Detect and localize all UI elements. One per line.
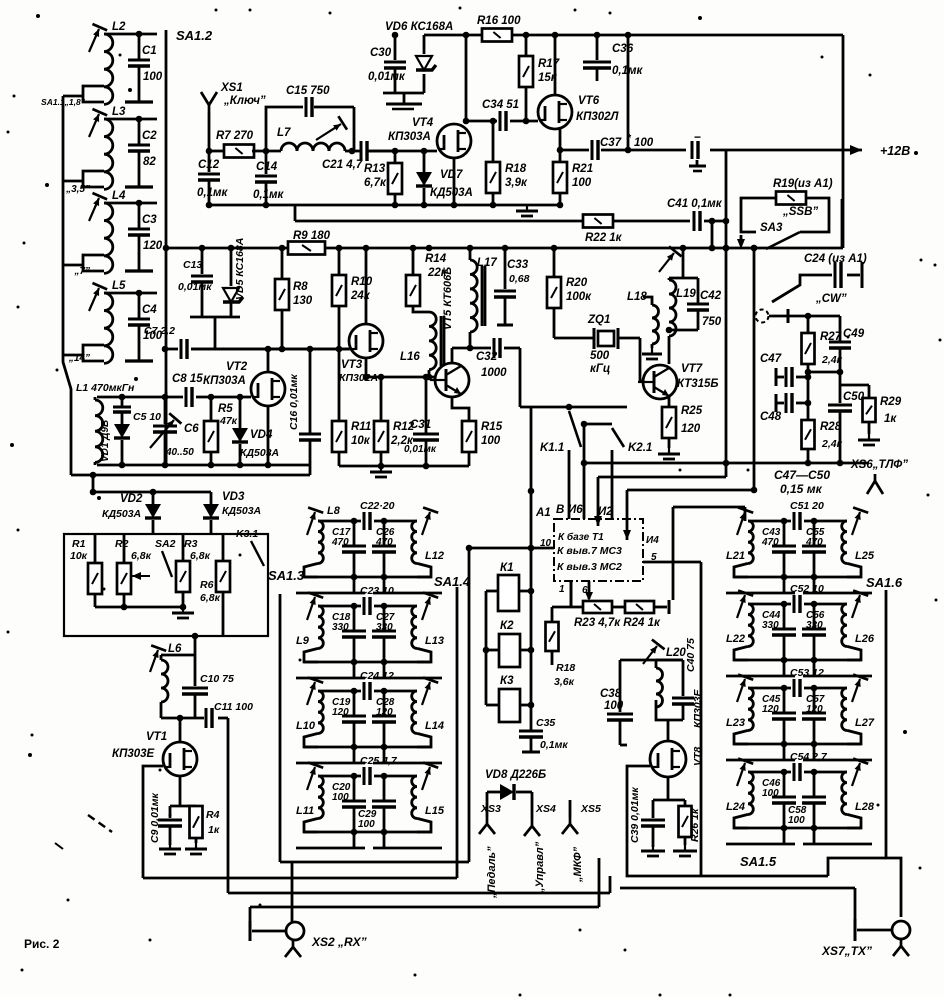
contact K1.1 — [569, 411, 581, 447]
svg-text:R7 270: R7 270 — [216, 130, 254, 142]
svg-text:„SSB”: „SSB” — [782, 206, 818, 218]
svg-text:КД503А: КД503А — [102, 508, 141, 520]
inductor L6 — [160, 655, 163, 660]
wire pins bottom — [570, 581, 573, 607]
svg-text:XS5: XS5 — [580, 803, 601, 815]
svg-text:C52 10: C52 10 — [790, 583, 824, 595]
wire — [668, 336, 671, 364]
capacitor C18 — [353, 606, 356, 631]
wire +12V rail — [628, 149, 686, 152]
wire — [734, 827, 861, 830]
capacitor C12 — [208, 151, 211, 172]
svg-text:C4: C4 — [142, 304, 157, 316]
transistor VT8 — [650, 741, 686, 777]
svg-text:100: 100 — [358, 819, 375, 830]
capacitor C29 — [383, 776, 386, 801]
capacitor C39 — [652, 800, 655, 818]
wire bus right — [620, 887, 855, 890]
wire right bank left bus — [700, 562, 703, 875]
resistor R27 — [807, 316, 810, 333]
svg-text:R17: R17 — [538, 58, 560, 70]
diode VD8 — [487, 791, 500, 794]
resistor R10 — [338, 248, 341, 275]
speck scratch — [88, 815, 112, 832]
svg-text:L24: L24 — [726, 801, 745, 813]
inductor L10 — [318, 691, 323, 733]
wire — [339, 465, 469, 468]
capacitor C55 — [813, 521, 816, 546]
resistor R9 — [288, 242, 325, 255]
svg-text:L25: L25 — [855, 550, 875, 562]
wire R22 line — [295, 220, 583, 223]
svg-text:XS4: XS4 — [535, 803, 556, 815]
svg-text:L2: L2 — [112, 21, 126, 33]
capacitor C17 — [353, 521, 356, 546]
wire — [643, 297, 652, 305]
svg-text:100: 100 — [332, 792, 349, 803]
wire gate line — [97, 396, 183, 399]
capacitor C20 — [353, 776, 356, 801]
wire main bus — [166, 247, 288, 250]
wire — [280, 861, 469, 864]
svg-text:В: В — [556, 504, 564, 516]
svg-text:L1 470мкГн: L1 470мкГн — [76, 382, 135, 394]
resistor R15 — [452, 397, 469, 421]
transistor VT2 — [251, 372, 285, 406]
svg-text:VT3: VT3 — [341, 359, 363, 371]
svg-text:C15 750: C15 750 — [286, 85, 330, 97]
relay K1 — [486, 590, 498, 593]
wire tap — [83, 345, 104, 361]
ground — [172, 607, 194, 618]
svg-text:L3: L3 — [112, 106, 126, 118]
svg-text:VD6 КС168А: VD6 КС168А — [385, 21, 453, 33]
wire — [104, 33, 157, 36]
svg-text:6,8к: 6,8к — [190, 550, 211, 562]
ground — [658, 448, 680, 459]
svg-text:−: − — [694, 130, 701, 144]
svg-text:L9: L9 — [296, 635, 310, 647]
inductor L2 — [104, 34, 113, 104]
svg-text:SA1.3: SA1.3 — [268, 568, 305, 583]
diode VD4 — [239, 397, 242, 428]
svg-text:C6: C6 — [184, 423, 199, 435]
ground — [641, 845, 665, 856]
svg-text:И6: И6 — [568, 504, 583, 516]
wire — [613, 220, 690, 223]
svg-text:330: 330 — [806, 620, 823, 631]
resistor R11 — [332, 421, 346, 452]
svg-text:К1: К1 — [500, 562, 513, 574]
svg-text:„CW”: „CW” — [815, 293, 847, 305]
svg-text:„3,5”: „3,5” — [65, 184, 90, 195]
svg-text:C11 100: C11 100 — [214, 701, 253, 713]
speck — [36, 14, 40, 18]
svg-text:3,6к: 3,6к — [554, 676, 575, 688]
svg-text:XS7„ТХ”: XS7„ТХ” — [821, 944, 872, 958]
svg-text:R8: R8 — [293, 281, 308, 293]
wire C32 output — [519, 348, 522, 407]
capacitor C1 — [138, 34, 141, 60]
svg-text:VT6: VT6 — [578, 95, 600, 107]
resistor R24 — [612, 606, 625, 609]
capacitor C3 — [138, 203, 141, 229]
svg-text:L26: L26 — [855, 633, 875, 645]
capacitor C53 — [748, 687, 791, 690]
capacitor C16 — [309, 349, 312, 434]
svg-text:10к: 10к — [70, 550, 88, 562]
svg-text:КТ315Б: КТ315Б — [677, 378, 719, 390]
wire — [179, 776, 182, 806]
capacitor C40 — [682, 660, 685, 696]
wire — [788, 315, 840, 318]
inductor L28 — [842, 772, 847, 814]
svg-text:„Педаль”: „Педаль” — [486, 846, 498, 899]
svg-text:Рис. 2: Рис. 2 — [24, 937, 60, 951]
wire — [304, 576, 431, 579]
svg-text:R29: R29 — [880, 396, 902, 408]
svg-text:C9 0,01мк: C9 0,01мк — [149, 792, 161, 843]
ground — [159, 843, 181, 854]
wire — [304, 661, 431, 664]
svg-text:R2: R2 — [115, 538, 129, 550]
svg-text:40..50: 40..50 — [165, 447, 194, 458]
svg-text:„МКФ”: „МКФ” — [572, 846, 584, 883]
svg-text:C35: C35 — [536, 717, 555, 729]
svg-text:+12В: +12В — [880, 144, 910, 158]
capacitor C58 — [813, 772, 816, 797]
svg-text:L10: L10 — [296, 720, 316, 732]
capacitor C22 — [318, 520, 361, 523]
svg-text:КД503А: КД503А — [222, 505, 261, 517]
wire frame — [71, 474, 281, 477]
wire — [734, 743, 861, 746]
capacitor C36 — [596, 35, 599, 60]
svg-text:R6: R6 — [200, 579, 214, 591]
resistor R19-3.6 — [551, 607, 554, 622]
svg-text:C32: C32 — [476, 351, 498, 363]
wire — [734, 659, 861, 662]
svg-text:10к: 10к — [351, 435, 371, 447]
svg-text:1к: 1к — [884, 413, 897, 425]
svg-text:100: 100 — [762, 788, 779, 799]
inductor L20 — [655, 660, 658, 668]
connector XS1 — [201, 92, 217, 112]
inductor L21 — [748, 521, 753, 563]
wire — [667, 777, 670, 800]
connector XS2 — [249, 921, 252, 941]
wire — [725, 150, 728, 463]
svg-text:„7”: „7” — [73, 266, 90, 277]
wire — [711, 221, 714, 248]
svg-text:100: 100 — [604, 700, 624, 712]
svg-text:КП303Е: КП303Е — [112, 748, 155, 760]
inductor L17 — [469, 248, 472, 260]
svg-text:0,15 мк: 0,15 мк — [780, 482, 823, 496]
inductor L11 — [318, 776, 323, 818]
svg-text:6,8к: 6,8к — [200, 592, 221, 604]
wire bus bottom3 — [250, 906, 599, 909]
svg-text:0,1мк: 0,1мк — [253, 189, 284, 201]
svg-text:К2: К2 — [500, 620, 514, 632]
wire relay bus left — [485, 591, 488, 705]
svg-text:L5: L5 — [112, 280, 126, 292]
svg-text:L23: L23 — [726, 717, 745, 729]
wire — [734, 576, 861, 579]
svg-text:C22·20: C22·20 — [360, 500, 395, 512]
capacitor C13 — [201, 248, 204, 274]
svg-text:L15: L15 — [425, 805, 445, 817]
wire — [828, 858, 886, 876]
resistor R20 — [553, 248, 556, 277]
svg-text:А1: А1 — [535, 507, 551, 519]
svg-text:82: 82 — [143, 156, 156, 168]
svg-text:100: 100 — [572, 177, 592, 189]
transistor VT5 — [430, 363, 469, 397]
inductor L19 — [668, 278, 671, 280]
capacitor C57 — [813, 688, 816, 713]
capacitor C2 — [138, 119, 141, 145]
capacitor C41 — [694, 211, 700, 231]
inductor L24 — [748, 772, 753, 814]
svg-text:XS2 „RX”: XS2 „RX” — [311, 935, 367, 949]
svg-text:C7 2,2: C7 2,2 — [144, 325, 175, 337]
svg-text:330: 330 — [332, 622, 349, 633]
svg-text:330: 330 — [376, 622, 393, 633]
svg-text:C48: C48 — [760, 411, 782, 423]
wire tap — [83, 171, 104, 187]
wire — [682, 248, 685, 278]
wire — [570, 581, 573, 607]
connector XS3 — [486, 792, 489, 817]
resistor R2 — [123, 534, 126, 563]
svg-text:R18: R18 — [505, 163, 527, 175]
svg-text:120: 120 — [806, 704, 823, 715]
svg-text:С40 75: С40 75 — [685, 638, 697, 672]
resistor R4 — [190, 806, 203, 838]
resistor R14 — [412, 248, 415, 275]
svg-text:C30: C30 — [370, 47, 392, 59]
svg-text:C47—C50: C47—C50 — [774, 468, 830, 482]
resistor R21 — [559, 150, 562, 162]
capacitor C5-C6 — [164, 397, 167, 424]
inductor L23 — [748, 688, 753, 730]
wire top rail — [424, 34, 843, 37]
resistor R3 — [182, 534, 185, 561]
inductor L18 — [652, 305, 659, 344]
wire — [92, 475, 95, 492]
wire bus A — [584, 462, 869, 465]
svg-text:120: 120 — [143, 240, 163, 252]
wire VT3 gate — [191, 348, 349, 351]
wire tap — [83, 86, 104, 102]
wire right frame top — [673, 506, 745, 509]
svg-text:1000: 1000 — [481, 367, 507, 379]
inductor L9 — [318, 606, 323, 648]
block A1 — [554, 519, 643, 581]
svg-text:C14: C14 — [256, 161, 278, 173]
svg-text:VD5 КС168А: VD5 КС168А — [234, 238, 246, 300]
wire VT6 source — [559, 129, 562, 150]
wire VT1 box — [143, 766, 163, 878]
svg-text:R25: R25 — [681, 405, 703, 417]
inductor L15 — [412, 776, 417, 818]
inductor L16 — [429, 312, 436, 370]
svg-text:C42: C42 — [700, 290, 722, 302]
wire SA1.1 bus — [63, 96, 71, 475]
transistor VT4 — [437, 124, 471, 158]
resistor R8 — [281, 248, 284, 279]
capacitor C45 — [783, 688, 786, 713]
capacitor C38 — [619, 688, 622, 712]
diode VD1 — [121, 397, 124, 407]
svg-text:47к: 47к — [219, 415, 238, 427]
svg-text:3,9к: 3,9к — [505, 177, 528, 189]
diode VD2 — [152, 492, 155, 504]
wire SA1.2 down — [165, 392, 168, 465]
capacitor C34 — [466, 120, 497, 123]
ground — [403, 93, 406, 104]
capacitor C43 — [783, 521, 786, 546]
svg-text:SA1.6: SA1.6 — [866, 575, 903, 590]
resistor R28 — [807, 372, 810, 420]
switch SA1.2 — [165, 30, 168, 465]
capacitor C35 — [519, 731, 543, 737]
svg-text:C36: C36 — [612, 43, 634, 55]
capacitor C30 — [394, 35, 397, 60]
wire right frame — [842, 35, 845, 248]
svg-text:R18: R18 — [556, 662, 575, 674]
capacitor C15 — [266, 107, 303, 151]
wire C34 tap — [492, 121, 495, 162]
resistor R12 — [380, 377, 383, 421]
capacitor C25 — [318, 775, 361, 778]
connector XS4 — [531, 792, 534, 819]
svg-text:0,01мк: 0,01мк — [368, 71, 406, 83]
svg-text:C33: C33 — [507, 259, 529, 271]
svg-text:R11: R11 — [351, 421, 371, 433]
svg-text:„Ключ”: „Ключ” — [223, 95, 266, 107]
wire tap — [83, 255, 104, 271]
svg-text:XS3: XS3 — [480, 803, 501, 815]
capacitor C44 — [783, 604, 786, 629]
capacitor C37 — [560, 149, 589, 152]
wire — [208, 112, 211, 151]
wire bus C — [627, 489, 754, 492]
inductor L5 — [104, 293, 113, 363]
svg-text:C1: C1 — [142, 45, 157, 57]
capacitor C-feed — [692, 141, 698, 159]
svg-text:0,01мк: 0,01мк — [404, 444, 437, 455]
svg-text:C5 10: C5 10 — [133, 411, 161, 423]
wire — [252, 150, 281, 153]
wire — [95, 606, 183, 609]
svg-text:КД503А: КД503А — [430, 187, 473, 199]
svg-text:R28: R28 — [820, 421, 842, 433]
wire bottom2 — [493, 204, 560, 207]
inductor L14 — [412, 691, 417, 733]
wire — [841, 199, 844, 248]
svg-text:С21 4,7: С21 4,7 — [322, 159, 363, 171]
svg-text:VT5 КТ606Б: VT5 КТ606Б — [442, 267, 454, 330]
wire — [620, 659, 683, 662]
svg-text:C39 0,01мк: C39 0,01мк — [629, 787, 641, 843]
diode VD7 — [423, 151, 426, 172]
resistor R17 — [525, 35, 528, 56]
ground — [858, 434, 880, 445]
wire pin5 — [643, 561, 701, 564]
svg-text:C41 0,1мк: C41 0,1мк — [667, 198, 723, 210]
capacitor C8 — [186, 387, 192, 407]
svg-text:R21: R21 — [572, 163, 593, 175]
svg-text:6,7к: 6,7к — [364, 177, 387, 189]
capacitor C19 — [353, 691, 356, 716]
wire SA1.3 bus — [279, 594, 282, 862]
capacitor C9 — [169, 806, 172, 818]
svg-text:R15: R15 — [481, 421, 503, 433]
wire K line — [520, 406, 627, 409]
inductor L3 — [104, 119, 113, 189]
svg-text:ZQ1: ZQ1 — [587, 314, 610, 326]
svg-text:К выв.7 МС3: К выв.7 МС3 — [557, 545, 622, 557]
capacitor C46 — [783, 772, 786, 797]
inductor L26 — [842, 604, 847, 646]
wire — [383, 92, 424, 95]
svg-text:130: 130 — [293, 295, 313, 307]
zener VD5 — [230, 248, 233, 286]
svg-text:C10 75: C10 75 — [200, 673, 234, 685]
svg-text:SA3: SA3 — [760, 222, 783, 234]
svg-text:VD7: VD7 — [440, 169, 463, 181]
svg-text:R19(из А1): R19(из А1) — [773, 178, 833, 190]
wire — [249, 907, 252, 921]
transistor VT3 — [349, 324, 383, 358]
inductor L4 — [104, 203, 113, 273]
svg-text:L6: L6 — [168, 643, 182, 655]
svg-text:R1: R1 — [72, 538, 86, 550]
diode VD3 — [210, 492, 213, 504]
svg-text:100к: 100к — [566, 291, 592, 303]
transistor VT7 — [638, 365, 677, 399]
resistor R18 — [486, 162, 500, 193]
svg-text:КП302Л: КП302Л — [576, 111, 620, 123]
svg-text:120: 120 — [376, 707, 393, 718]
capacitor C42 — [697, 278, 700, 304]
capacitor C27 — [383, 606, 386, 631]
svg-text:500: 500 — [590, 350, 610, 362]
svg-text:C34 51: C34 51 — [482, 99, 519, 111]
capacitor C54 — [748, 771, 791, 774]
capacitor C7 — [165, 348, 178, 351]
wire — [583, 424, 586, 519]
inductor L13 — [412, 606, 417, 648]
capacitor C51 — [748, 520, 791, 523]
svg-text:КП303А: КП303А — [388, 131, 431, 143]
relay K2 — [486, 649, 499, 652]
svg-text:470: 470 — [331, 537, 349, 548]
svg-text:R23 4,7к R24 1к: R23 4,7к R24 1к — [574, 617, 661, 629]
wire — [366, 376, 436, 379]
ground — [516, 205, 538, 216]
ground — [673, 845, 697, 856]
svg-text:R22 1к: R22 1к — [585, 232, 623, 244]
svg-text:C24 (из А1): C24 (из А1) — [804, 253, 867, 265]
capacitor C47 — [775, 368, 778, 386]
capacitor C23 — [318, 605, 361, 608]
svg-text:C38: C38 — [600, 688, 622, 700]
resistor R26 — [684, 800, 687, 806]
svg-text:L28: L28 — [855, 801, 875, 813]
